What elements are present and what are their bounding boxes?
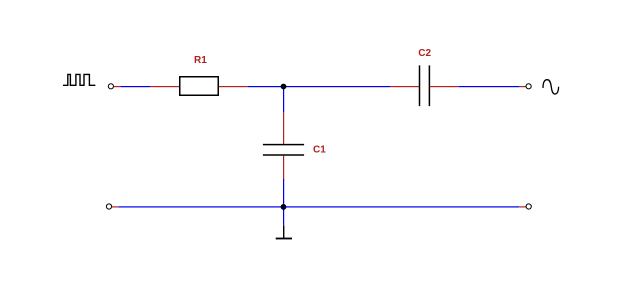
capacitor C2 <box>419 65 430 106</box>
wire node A down to C1 (blue) <box>283 87 284 112</box>
output terminal (top right) <box>526 84 531 89</box>
capacitor C1 <box>263 144 304 156</box>
svg-text:C1: C1 <box>313 145 326 156</box>
bottom-right terminal <box>526 204 531 209</box>
node A junction dot <box>281 84 287 90</box>
svg-text:R1: R1 <box>194 55 207 66</box>
wire C2 to output (blue) <box>459 86 520 87</box>
node B junction dot (bottom rail) <box>281 204 287 210</box>
resistor R1 <box>180 77 219 96</box>
wire node B down to ground (blue) <box>283 207 284 226</box>
bottom rail (blue) <box>118 206 519 207</box>
wire to R1 left lead (red) <box>150 86 179 87</box>
wire down to bottom rail (blue) <box>283 179 284 207</box>
wire down to C1 top plate (red) <box>283 112 284 144</box>
ground <box>276 226 292 240</box>
svg-text:C2: C2 <box>418 48 431 59</box>
bottom-left terminal <box>106 204 111 209</box>
square-wave input source symbol <box>63 74 95 85</box>
wire input to R1 (blue) <box>121 86 150 87</box>
wire input terminal to R1 (red) <box>114 86 121 87</box>
wire to output terminal (red) <box>519 86 526 87</box>
wire to C2 left plate (red) <box>390 86 419 87</box>
bottom rail left stub (red) <box>112 206 119 207</box>
wire R1 right lead (red) <box>219 86 248 87</box>
wire C1 bottom plate down (red) <box>283 156 284 179</box>
bottom rail right stub (red) <box>519 206 526 207</box>
wire C2 right plate out (red) <box>430 86 459 87</box>
input terminal (top left) <box>108 84 113 89</box>
sine-wave output symbol <box>543 80 559 94</box>
wire R1 to node A and toward C2 (blue) <box>248 86 390 87</box>
